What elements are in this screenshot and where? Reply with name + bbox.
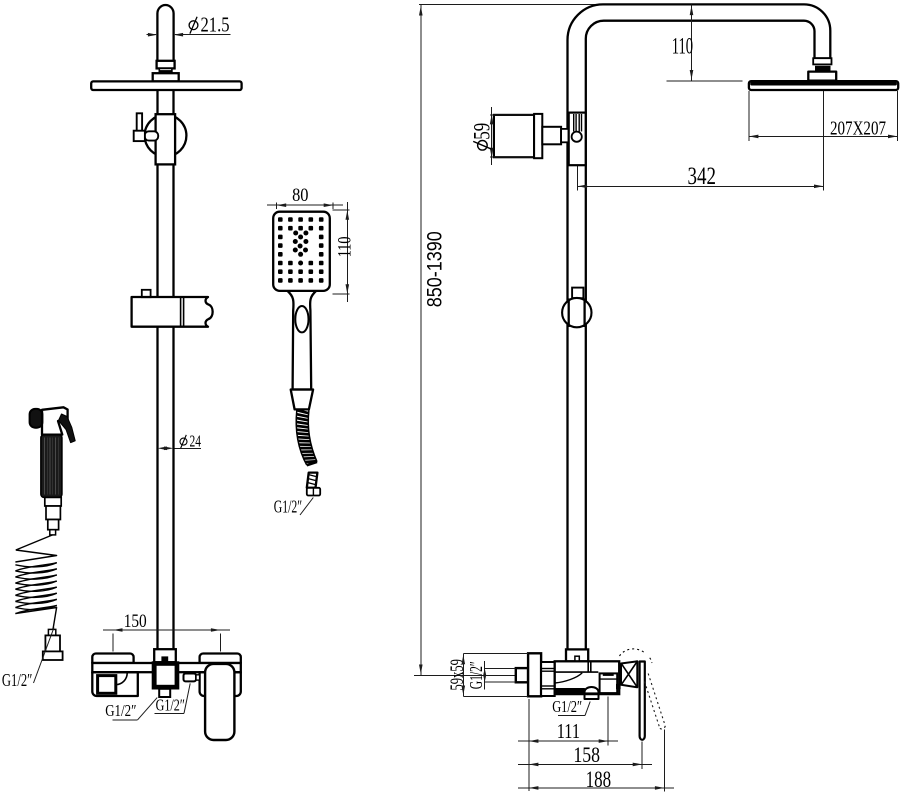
dimension 59x59 lines [463, 653, 528, 655]
slider holder split line [180, 297, 182, 326]
slider holder body [132, 297, 213, 327]
mixer riser flange (side) [566, 649, 588, 661]
hex nut facet [312, 488, 314, 495]
mixer center valve cavity [157, 666, 175, 685]
diverter block (side) [569, 113, 586, 166]
svg-text:G1/2″: G1/2″ [105, 701, 136, 720]
hand shower hose hex nut [307, 488, 320, 496]
svg-text:188: 188 [586, 767, 612, 792]
rail lower segment [156, 327, 158, 649]
slider clamp lock [572, 288, 583, 299]
dimension 110 (hand shower) [333, 209, 350, 211]
diverter body block [156, 114, 176, 164]
svg-text:111: 111 [557, 719, 580, 743]
hand shower neck [288, 291, 317, 390]
svg-text:150: 150 [124, 611, 147, 632]
sprayer lower neck [48, 520, 59, 530]
right escutcheon ear [200, 654, 241, 664]
hand shower head [273, 212, 330, 291]
hand shower button [295, 306, 308, 332]
dimension 158 [641, 742, 643, 770]
slider clamp ring [562, 298, 591, 327]
left lower housing [92, 672, 138, 696]
arm flange [808, 72, 836, 81]
mixer body (side) [555, 661, 620, 694]
dimension 80 [276, 203, 278, 210]
diverter lever stem [137, 113, 142, 131]
wall centerline [414, 675, 516, 677]
phantom lever (dotted) [620, 649, 646, 656]
dimension 110 (arm drop) [666, 80, 742, 82]
bidet sprayer head [42, 407, 68, 434]
coil hose connector body [45, 635, 60, 651]
mixer handle (front) [205, 664, 234, 740]
svg-text:110: 110 [672, 33, 693, 58]
mixer side sub-block [600, 673, 618, 693]
left escutcheon ear [92, 654, 133, 664]
shower plate (front view) [91, 81, 241, 90]
dimension D59 [490, 114, 533, 116]
mixer cross bar [92, 663, 241, 672]
right lower housing [200, 672, 241, 696]
sprayer lower body [46, 506, 60, 520]
slider holder button [142, 290, 151, 297]
wall nipple (side) [516, 668, 528, 682]
coil hose connector nipple [48, 629, 55, 635]
pipe collar nut [157, 61, 175, 69]
handle cone (side) [621, 661, 637, 687]
svg-text:G1/2″: G1/2″ [156, 696, 185, 715]
diverter pivot circle [572, 132, 582, 142]
handle hinge dark piece [616, 684, 620, 689]
grip stripes [44, 438, 46, 495]
svg-text:G1/2″: G1/2″ [466, 661, 486, 689]
shower head plate (side view) [749, 81, 898, 90]
diverter valve body circle [145, 115, 187, 157]
riser pipe through clamp [568, 298, 570, 327]
diverter knob cap [534, 114, 542, 158]
svg-text:850-1390: 850-1390 [423, 231, 447, 307]
svg-text:G1/2″: G1/2″ [2, 670, 33, 690]
diverter block inner lines [573, 114, 575, 132]
dimension D21.5 [147, 34, 157, 36]
svg-text:158: 158 [573, 742, 600, 767]
down outlet port (side) [585, 687, 599, 699]
hand shower ribbed hose [296, 410, 307, 465]
svg-text:342: 342 [687, 163, 716, 190]
svg-text:G1/2″: G1/2″ [552, 697, 582, 716]
connection nut (side) [541, 662, 555, 696]
svg-text:110: 110 [335, 237, 355, 258]
mixer upper block port [162, 657, 168, 662]
mixer center valve block [152, 662, 178, 689]
flange tab [575, 656, 579, 661]
arm connector [813, 58, 831, 64]
svg-text:80: 80 [292, 186, 308, 206]
left housing check valve [98, 676, 116, 694]
bidet sprayer grip [41, 435, 62, 498]
coil hose connector flange [43, 651, 63, 660]
grip lower ring [45, 497, 61, 506]
pipe lower stub [159, 68, 172, 71]
svg-text:G1/2″: G1/2″ [274, 496, 302, 516]
bidet sprayer nozzle [30, 409, 43, 428]
svg-text:59: 59 [469, 123, 494, 140]
black seal band [159, 71, 172, 74]
sprayer hose nipple [50, 530, 56, 535]
diverter knob (side) [494, 115, 534, 157]
dimension 342 [823, 91, 825, 191]
mount flange [153, 73, 179, 81]
bidet sprayer trigger [59, 414, 76, 443]
coiled hose [16, 535, 53, 550]
svg-text:24: 24 [190, 432, 202, 451]
dimension 188 [663, 730, 665, 792]
spray face circles [293, 231, 298, 236]
rail between diverter and slider [156, 164, 158, 297]
side port link [196, 675, 200, 680]
left housing arc [116, 673, 127, 685]
diverter stem [542, 127, 561, 145]
hand shower hose nut (ribbed) [307, 473, 318, 488]
dimension 850-1390 [419, 3, 692, 5]
dimension D24 [158, 447, 168, 451]
wall escutcheon (side) [528, 653, 541, 696]
arm seal band [816, 66, 831, 72]
diverter stem collar [561, 129, 569, 142]
side shower port [184, 674, 197, 682]
top inlet pipe (front view) [157, 5, 173, 62]
handle lever (side) [640, 662, 645, 740]
diverter lever knob [134, 131, 145, 141]
svg-text:21.5: 21.5 [201, 13, 230, 37]
mixer bottom outlet port [159, 689, 170, 697]
rail segment below plate [156, 91, 158, 115]
gooseneck pipe [568, 4, 831, 648]
hand shower ferrule [291, 390, 313, 410]
spray face squares [278, 217, 283, 222]
diverter lever link [145, 131, 159, 140]
dimension 111 [528, 699, 530, 791]
dimension 207X207 [748, 91, 750, 141]
mixer riser upper block [154, 649, 176, 662]
dimension 150 [112, 634, 114, 652]
dimension G1/2 lines [485, 667, 516, 669]
svg-text:207X207: 207X207 [830, 118, 886, 140]
